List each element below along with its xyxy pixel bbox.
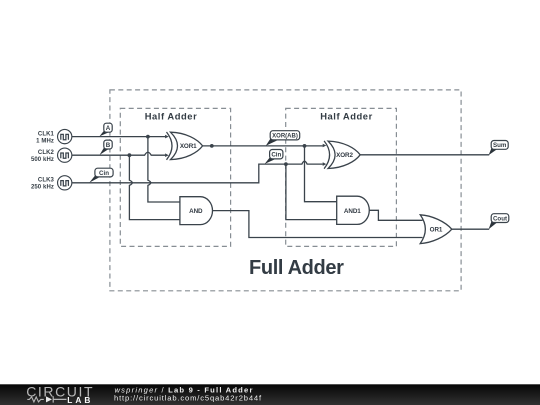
svg-text:AND1: AND1 xyxy=(344,208,361,215)
svg-text:CLK2: CLK2 xyxy=(38,150,55,156)
svg-text:Cin: Cin xyxy=(271,151,281,158)
svg-text:A: A xyxy=(106,125,111,132)
svg-text:Half Adder: Half Adder xyxy=(145,111,198,122)
svg-text:1 MHz: 1 MHz xyxy=(36,138,54,144)
svg-text:500 kHz: 500 kHz xyxy=(31,157,54,163)
svg-text:250 kHz: 250 kHz xyxy=(31,185,54,191)
svg-text:Cout: Cout xyxy=(493,215,507,222)
svg-text:XOR(AB): XOR(AB) xyxy=(272,134,298,140)
svg-text:http://circuitlab.com/c5qab42r: http://circuitlab.com/c5qab42r2b44f xyxy=(114,393,262,402)
svg-text:AND: AND xyxy=(189,208,203,215)
svg-text:B: B xyxy=(106,142,111,149)
svg-text:CLK1: CLK1 xyxy=(38,131,55,137)
svg-text:Sum: Sum xyxy=(493,142,507,149)
svg-text:Cin: Cin xyxy=(99,170,109,177)
svg-text:Half Adder: Half Adder xyxy=(320,111,373,122)
svg-text:XOR1: XOR1 xyxy=(180,143,197,150)
svg-text:LAB: LAB xyxy=(67,395,93,405)
svg-text:OR1: OR1 xyxy=(430,227,443,234)
svg-text:CLK3: CLK3 xyxy=(38,178,55,184)
svg-text:Full Adder: Full Adder xyxy=(249,257,344,279)
svg-text:XOR2: XOR2 xyxy=(336,152,353,159)
